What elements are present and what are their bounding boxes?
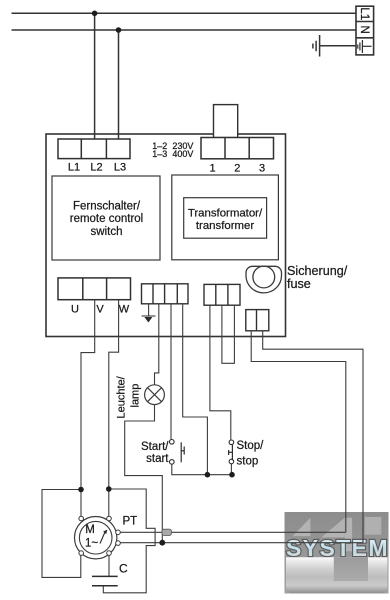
svg-text:start: start: [146, 453, 169, 465]
svg-text:3: 3: [259, 163, 265, 175]
svg-text:lamp: lamp: [130, 384, 142, 408]
svg-text:M: M: [85, 524, 95, 536]
svg-text:transformer: transformer: [196, 220, 254, 232]
svg-text:V: V: [96, 304, 104, 316]
svg-text:Leuchte/: Leuchte/: [116, 375, 128, 418]
svg-text:Sicherung/: Sicherung/: [287, 264, 348, 278]
svg-text:L1: L1: [358, 7, 370, 20]
svg-text:U: U: [71, 304, 79, 316]
svg-text:C: C: [119, 562, 128, 576]
svg-text:L1: L1: [68, 162, 80, 174]
svg-text:1: 1: [209, 163, 215, 175]
svg-text:remote control: remote control: [70, 213, 144, 225]
svg-text:Stop/: Stop/: [237, 440, 265, 452]
svg-text:Transformator/: Transformator/: [188, 208, 263, 220]
svg-text:1–3 400V: 1–3 400V: [152, 149, 193, 159]
svg-text:L3: L3: [114, 162, 126, 174]
svg-text:W: W: [119, 304, 130, 316]
svg-text:N: N: [358, 25, 370, 33]
svg-text:switch: switch: [91, 226, 123, 238]
svg-text:Start/: Start/: [141, 441, 169, 453]
svg-text:L2: L2: [90, 162, 102, 174]
svg-text:1~: 1~: [85, 538, 98, 550]
svg-text:SYSTEM: SYSTEM: [286, 535, 388, 561]
svg-text:stop: stop: [237, 456, 259, 468]
svg-text:fuse: fuse: [287, 277, 311, 291]
svg-text:PT: PT: [123, 516, 138, 528]
svg-text:2: 2: [234, 163, 240, 175]
svg-text:Fernschalter/: Fernschalter/: [73, 201, 141, 213]
